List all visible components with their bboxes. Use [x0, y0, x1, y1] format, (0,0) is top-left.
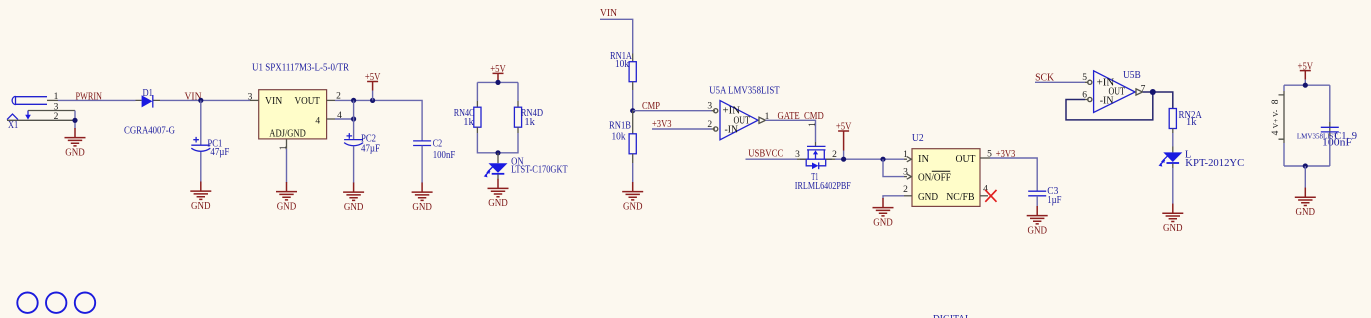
U2 pin 5 (OUT) [980, 150, 992, 160]
port circle 3 [75, 293, 95, 313]
svg-text:USBVCC: USBVCC [748, 149, 783, 160]
wire USBVCC to T1 [746, 158, 798, 160]
resistor RN1A 10k [610, 51, 636, 90]
svg-text:RN1B: RN1B [609, 121, 631, 132]
junction U5B out [1150, 89, 1156, 95]
U1 pin 4 [315, 111, 342, 127]
svg-text:NC/FB: NC/FB [946, 192, 974, 203]
svg-text:D1: D1 [143, 88, 153, 99]
power +5V (T1 drain) [836, 122, 852, 140]
svg-text:VIN: VIN [600, 8, 617, 19]
resistor RN1B 10k [609, 111, 636, 163]
wire PC2 column [353, 100, 355, 139]
wire supply to ground [1304, 166, 1306, 188]
wire RN4C branch bottom [477, 133, 498, 153]
wire +5V stem (supply block) [1304, 80, 1306, 86]
svg-text:VOUT: VOUT [295, 96, 321, 107]
wire C2 to ground [421, 146, 423, 183]
wire RN2A to LED2 [1172, 133, 1174, 147]
power +5V (op-amp supply) [1298, 61, 1314, 79]
U5B pin 6 [1082, 91, 1092, 102]
wire +5V stem [372, 91, 374, 101]
resistor RN2A 1k [1169, 109, 1202, 134]
connector X1 (power barrel jack) [7, 96, 47, 131]
svg-text:3: 3 [54, 103, 59, 113]
wire +5V stem to rail [843, 140, 845, 151]
wire CMP to U5A +IN [633, 110, 712, 112]
wire LED2 to ground [1172, 168, 1174, 204]
U2 pin 2 (GND) [903, 185, 912, 196]
wire VIN to PC1 [200, 100, 202, 145]
junction supply top [1303, 83, 1308, 88]
capacitor C3 1uF [1028, 186, 1061, 206]
svg-text:3: 3 [248, 92, 253, 102]
svg-text:-IN: -IN [1100, 96, 1114, 107]
svg-text:7: 7 [1141, 84, 1146, 94]
wire C3 to ground [1036, 196, 1038, 207]
ground (RN1B) [622, 182, 643, 212]
ground (LED1) [488, 179, 509, 209]
wire T1 to U2 [835, 158, 904, 160]
svg-text:100nF: 100nF [1322, 137, 1352, 148]
U1 pin 1 (ADJ) [279, 139, 289, 150]
U5B pin 7 (OUT) [1135, 84, 1146, 95]
junction X1 [72, 118, 77, 123]
power +5V (U1 output) [365, 72, 381, 90]
U2 pin 3 (ON/OFF) [903, 167, 911, 179]
svg-text:4: 4 [1271, 130, 1281, 135]
capacitor C2 100nF [413, 138, 455, 160]
svg-text:V+ V-: V+ V- [1271, 109, 1280, 128]
svg-text:4: 4 [315, 116, 320, 126]
junction CMP [630, 108, 635, 113]
X1 pin 2 [7, 112, 75, 122]
svg-text:1µF: 1µF [1047, 195, 1061, 206]
ground (supply block) [1295, 188, 1316, 218]
wire U5B feedback loop [1066, 92, 1153, 120]
svg-text:3: 3 [707, 102, 712, 112]
ground (PC1) [190, 182, 211, 212]
svg-text:47µF: 47µF [361, 144, 380, 155]
svg-text:10k: 10k [615, 59, 630, 70]
svg-text:-IN: -IN [725, 124, 739, 135]
U2 pin 1 (IN) [903, 150, 911, 162]
svg-text:2: 2 [54, 112, 59, 122]
svg-text:VIN: VIN [265, 96, 283, 107]
svg-text:IRLML6402PBF: IRLML6402PBF [795, 181, 851, 192]
regulator U2 [912, 133, 980, 206]
junction +5V/RN4 [495, 80, 500, 85]
svg-text:OUT: OUT [956, 154, 977, 165]
svg-text:1k: 1k [1186, 117, 1197, 128]
svg-text:5: 5 [1082, 73, 1087, 83]
capacitor 100nF (supply bypass) [1321, 85, 1352, 166]
svg-text:100nF: 100nF [433, 150, 456, 161]
wire D1 to U1 [160, 99, 250, 101]
junction U2 branch [880, 157, 885, 162]
wire U1 ADJ to ground [286, 149, 288, 183]
wire PWRIN [58, 99, 136, 101]
X1 pin 1 [47, 92, 59, 102]
junction VOUT/PC2 [351, 98, 356, 103]
svg-text:LTST-C170GKT: LTST-C170GKT [511, 165, 568, 176]
wire supply block top rail [1284, 84, 1330, 86]
junction +5V/T1 [841, 157, 846, 162]
ground (PC2) [343, 183, 364, 213]
svg-text:1: 1 [279, 145, 289, 150]
wire RN4D branch bottom [498, 133, 518, 153]
ground (C3) [1027, 206, 1048, 236]
wire PC1 to ground [200, 152, 202, 182]
wire X1 pins 3/2 to ground [74, 111, 76, 129]
X1 pin 3 [28, 103, 75, 113]
U1 pin 3 (VIN) [248, 92, 259, 102]
U2 pin 4 (NC/FB) no-connect [980, 185, 997, 202]
wire U5A out to T1 gate [766, 120, 816, 142]
svg-text:47µF: 47µF [210, 147, 229, 158]
junction pin4/PC2 [351, 116, 356, 121]
U1 pin 2 (VOUT) [327, 92, 342, 102]
svg-text:GND: GND [918, 192, 938, 203]
T1 pin 3 [795, 150, 806, 160]
U5A pin 3 [707, 102, 717, 113]
op-amp U5B [1094, 70, 1141, 112]
svg-text:ADJ/GND: ADJ/GND [269, 129, 306, 140]
svg-text:10k: 10k [612, 132, 627, 143]
port circle 2 [46, 293, 66, 313]
wire RN4D branch top [517, 82, 519, 101]
port circle 1 [17, 293, 37, 313]
LED ON LTST-C170GKT [484, 153, 568, 180]
wire branch to U2 pin 3 [883, 159, 904, 176]
T1 pin 2 [826, 150, 837, 160]
junction +5V stem [370, 98, 375, 103]
diode D1 CGRA4007-G [124, 88, 175, 136]
capacitor PC2 47uF [344, 133, 380, 155]
svg-text:1: 1 [903, 150, 908, 160]
svg-text:1k: 1k [524, 117, 535, 128]
resistor RN4C 1k [454, 101, 481, 133]
ground (U2) [873, 198, 894, 228]
junction LED top [495, 150, 500, 155]
U5A pin 2 [707, 120, 717, 131]
ground (U1 ADJ) [276, 182, 297, 212]
transistor T1 IRLML6402PBF [795, 122, 851, 192]
ground (X1) [65, 128, 86, 158]
resistor RN4D 1k [514, 101, 543, 133]
op-amp power pins U5 (V+/V- stick) [1271, 85, 1357, 166]
wire supply block bottom rail [1284, 165, 1330, 167]
wire +3V3 to U5A -IN [652, 128, 712, 130]
junction supply bottom [1303, 163, 1308, 168]
regulator U1 SPX1117M3-L-5-0/TR [252, 62, 349, 139]
svg-text:2: 2 [707, 120, 712, 130]
capacitor PC1 47uF [191, 137, 229, 158]
LED L KPT-2012YC [1159, 147, 1245, 169]
wire U2 out to C3 [990, 158, 1037, 191]
wire RN4C branch top [476, 82, 478, 101]
svg-text:2: 2 [903, 185, 908, 195]
U5B pin 5 [1082, 73, 1092, 84]
svg-text:C2: C2 [433, 138, 442, 149]
wire VIN to RN1A [600, 19, 633, 53]
junction VIN [198, 98, 203, 103]
wire RN1B to ground [632, 163, 634, 183]
svg-text:CGRA4007-G: CGRA4007-G [124, 125, 175, 136]
wire VOUT rail [335, 100, 422, 140]
wire U5B out [1143, 92, 1173, 109]
svg-text:8: 8 [1271, 99, 1281, 104]
svg-text:1: 1 [54, 92, 59, 102]
ground (C2) [412, 183, 433, 213]
svg-text:U5B: U5B [1123, 70, 1141, 81]
wire SCK to U5B [1035, 81, 1085, 83]
svg-text:KPT-2012YC: KPT-2012YC [1185, 158, 1244, 169]
svg-text:U2: U2 [912, 133, 924, 144]
svg-text:U1 SPX1117M3-L-5-0/TR: U1 SPX1117M3-L-5-0/TR [252, 62, 349, 73]
power +5V (LED branch) [490, 64, 506, 82]
ground (LED2) [1162, 204, 1183, 234]
wire RN1A to CMP node [632, 90, 634, 111]
svg-text:1: 1 [808, 122, 818, 127]
svg-text:ON/OFF: ON/OFF [918, 173, 951, 184]
wire PC2 to ground [353, 146, 355, 183]
svg-text:DIGITAL: DIGITAL [933, 314, 971, 318]
svg-text:U5A LMV358LIST: U5A LMV358LIST [709, 86, 780, 97]
U5A pin 1 (OUT) [758, 112, 770, 123]
svg-text:1k: 1k [463, 117, 474, 128]
svg-text:IN: IN [918, 154, 929, 165]
svg-text:X1: X1 [8, 120, 18, 131]
wire U2 pin 2 to ground [883, 196, 904, 199]
op-amp U5A LMV358LIST [709, 86, 780, 140]
wire pin4 to PC2 column [335, 118, 354, 120]
svg-text:3: 3 [903, 167, 908, 177]
wire +5V to RN4 rail [477, 81, 518, 83]
